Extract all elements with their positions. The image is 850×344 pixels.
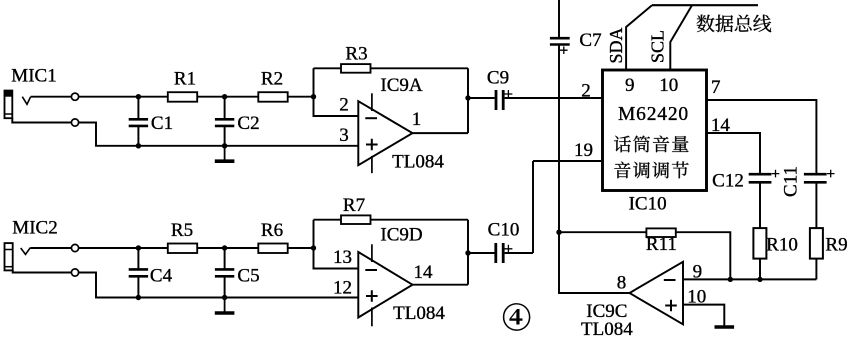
- figure number 4 circled: [503, 303, 530, 330]
- MIC2 jack tip contact mark: [21, 248, 31, 255]
- svg-text:R3: R3: [345, 44, 367, 65]
- IC9D plus sign: [366, 290, 378, 302]
- ground at IC9C pin 10: [715, 325, 735, 329]
- node IC9D inverting input junction: [311, 245, 316, 250]
- wire R3 feedback left branch: [314, 68, 359, 116]
- svg-text:3: 3: [339, 125, 349, 146]
- wire inverting bus pin9: [683, 278, 816, 280]
- capacitor C12: [749, 173, 772, 176]
- resistor R3: [341, 64, 371, 73]
- svg-text:C2: C2: [237, 113, 259, 134]
- wire R10 to bottom bus: [759, 259, 761, 280]
- svg-text:R10: R10: [766, 235, 798, 256]
- wire MIC2 ground bus: [79, 273, 359, 298]
- wire MIC1 tip to C1 node: [31, 96, 72, 98]
- data bus line: [652, 4, 758, 6]
- wire R7 top: [314, 219, 342, 221]
- svg-text:R7: R7: [343, 195, 365, 216]
- svg-text:R11: R11: [646, 234, 677, 255]
- capacitor C9: [495, 90, 498, 110]
- svg-text:SDA: SDA: [606, 27, 626, 63]
- svg-text:2: 2: [339, 95, 349, 116]
- svg-text:TL084: TL084: [393, 303, 445, 324]
- wire top node to R1: [79, 96, 168, 98]
- svg-text:19: 19: [574, 140, 593, 161]
- svg-text:1: 1: [412, 109, 422, 130]
- wire C7 top lead: [558, 0, 560, 38]
- svg-text:2: 2: [581, 80, 591, 101]
- capacitor C2: [224, 97, 226, 120]
- label YinDiaoTiaoJie: [614, 162, 630, 179]
- svg-text:R1: R1: [174, 69, 196, 90]
- op-amp U IC9A: [358, 101, 412, 165]
- resistor R2: [258, 92, 287, 102]
- C11 polarity plus: [827, 170, 835, 178]
- svg-text:8: 8: [617, 273, 627, 294]
- node R11 left junction: [556, 230, 561, 235]
- svg-text:R2: R2: [261, 69, 283, 90]
- wire output node to C9: [468, 97, 495, 99]
- wire pin 10 to ground: [683, 305, 724, 326]
- node IC9D output junction: [465, 250, 470, 255]
- svg-text:C10: C10: [488, 220, 520, 241]
- wire C10 to pin19 riser: [505, 252, 533, 254]
- IC9D V- power pin: [371, 308, 373, 327]
- capacitor C1: [137, 97, 139, 120]
- svg-text:TL084: TL084: [392, 151, 444, 172]
- resistor R7: [341, 215, 371, 224]
- C9 polarity plus: [504, 90, 512, 98]
- wire C9 to IC10 pin 2: [505, 97, 603, 99]
- wire top node to R5: [79, 247, 168, 249]
- node C5 bottom junction: [222, 295, 227, 300]
- SDA lead: [626, 5, 652, 70]
- svg-text:C9: C9: [487, 68, 509, 89]
- svg-text:C11: C11: [781, 166, 802, 197]
- svg-text:10: 10: [659, 75, 678, 96]
- svg-text:R9: R9: [825, 235, 847, 256]
- IC9C minus sign: [664, 279, 676, 281]
- C12 polarity plus: [772, 170, 780, 178]
- capacitor C7: [550, 37, 570, 40]
- wire R3 top: [314, 67, 342, 69]
- ground at C5: [224, 298, 226, 314]
- IC9D V+ power pin: [371, 244, 373, 262]
- IC9A plus sign: [366, 139, 378, 151]
- node R11 right junction: [728, 277, 733, 282]
- wire IC9D output: [413, 284, 469, 286]
- svg-text:C12: C12: [712, 170, 744, 191]
- capacitor C4: [137, 248, 139, 269]
- wire R1 to R2: [197, 96, 258, 98]
- connector MIC1 jack: [5, 91, 13, 119]
- wire IC10 pin 19: [533, 160, 603, 162]
- svg-text:IC9D: IC9D: [380, 224, 422, 245]
- IC9A V- power pin: [371, 156, 373, 173]
- wire MIC2 tip to C4 node: [30, 247, 71, 249]
- IC9D minus sign: [365, 269, 377, 271]
- resistor R5: [168, 244, 197, 254]
- node C1 top junction: [136, 94, 141, 99]
- capacitor C10: [494, 243, 497, 263]
- node R10 bottom junction: [757, 277, 762, 282]
- resistor R1: [168, 92, 197, 102]
- svg-text:R5: R5: [171, 220, 193, 241]
- label HuaTongYinLiang: [614, 136, 631, 153]
- IC U10 M62420 box: [603, 70, 707, 191]
- wire pin 14 to C12 column: [707, 133, 761, 174]
- svg-text:C4: C4: [150, 266, 173, 287]
- wire IC9D output node vertical: [467, 220, 469, 285]
- wire R11 left: [559, 231, 646, 233]
- svg-text:M62420: M62420: [618, 104, 689, 125]
- wire R7 feedback left branch: [314, 220, 359, 269]
- capacitor C11: [804, 173, 827, 176]
- svg-text:MIC1: MIC1: [11, 66, 56, 87]
- MIC1 jack tip contact mark: [22, 97, 30, 105]
- MIC2 jack terminal bottom: [71, 269, 78, 276]
- svg-text:C1: C1: [151, 113, 173, 134]
- node C4 top junction: [136, 245, 141, 250]
- label data bus: [697, 15, 715, 32]
- resistor R9: [810, 228, 823, 259]
- node C2 top junction: [222, 94, 227, 99]
- svg-text:C7: C7: [579, 30, 601, 51]
- wire R7 to output node: [371, 219, 469, 221]
- node C5 top junction: [222, 245, 227, 250]
- wire IC9A output: [413, 132, 469, 134]
- wire C11 to R9: [815, 182, 817, 228]
- svg-text:9: 9: [625, 75, 635, 96]
- node C1 bottom junction: [136, 143, 141, 148]
- wire R5 to R6: [197, 247, 258, 249]
- IC9A V+ power pin: [371, 93, 373, 111]
- wire output node to C10: [468, 252, 495, 254]
- wire C7 bottom / IC9C output riser: [558, 45, 560, 233]
- svg-text:R6: R6: [261, 220, 283, 241]
- MIC2 jack terminal top: [71, 244, 78, 251]
- wire output node vertical: [467, 68, 469, 133]
- wire MIC1 sleeve to ground bus: [12, 118, 71, 122]
- wire R11 right: [676, 232, 731, 279]
- wire MIC1 ground bus: [79, 123, 359, 146]
- wire pin19 drop to C10: [532, 161, 534, 253]
- svg-text:IC10: IC10: [629, 193, 667, 214]
- svg-text:MIC2: MIC2: [12, 218, 57, 239]
- wire R3 to output node: [371, 67, 469, 69]
- SCL lead: [670, 5, 692, 70]
- wire R2 to IC9A input node: [288, 96, 314, 98]
- svg-text:13: 13: [333, 247, 352, 268]
- wire MIC2 sleeve to ground bus: [13, 270, 72, 272]
- wire pin 7 to C11 column: [707, 100, 817, 174]
- op-amp U IC9C: [630, 262, 684, 325]
- svg-text:IC9A: IC9A: [380, 75, 423, 96]
- resistor R11: [646, 228, 675, 237]
- wire C12 to R10: [759, 182, 761, 228]
- node C4 bottom junction: [136, 295, 141, 300]
- svg-text:TL084: TL084: [581, 319, 633, 339]
- IC9C plus sign: [665, 300, 677, 312]
- connector MIC2 jack: [5, 243, 13, 270]
- capacitor C5: [224, 248, 226, 269]
- IC9A minus sign: [365, 117, 377, 119]
- svg-text:14: 14: [414, 262, 434, 283]
- op-amp U IC9D: [358, 252, 412, 318]
- MIC1 jack terminal top: [71, 93, 78, 100]
- ground at C2: [224, 146, 226, 161]
- wire riser to IC9C output: [559, 232, 630, 293]
- resistor R10: [753, 228, 766, 259]
- node C2 bottom junction: [222, 143, 227, 148]
- wire R6 to IC9D input node: [288, 247, 314, 249]
- svg-text:7: 7: [711, 77, 721, 98]
- svg-text:12: 12: [333, 278, 352, 299]
- svg-text:C5: C5: [237, 266, 259, 287]
- C10 polarity plus: [504, 245, 512, 253]
- MIC1 jack terminal bottom: [71, 119, 78, 126]
- node IC9A output junction: [465, 95, 470, 100]
- resistor R6: [258, 244, 287, 254]
- svg-text:SCL: SCL: [648, 30, 668, 63]
- C7 polarity plus: [560, 46, 568, 54]
- wire R9 to bottom bus: [815, 259, 817, 280]
- node IC9A inverting input junction: [311, 94, 316, 99]
